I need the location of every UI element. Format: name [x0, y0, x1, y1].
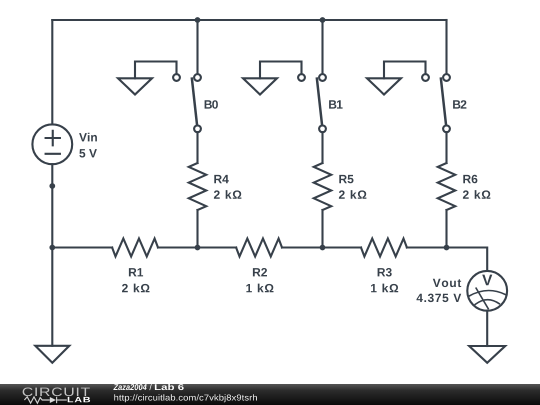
- label R1 value 2 kΩ: [122, 284, 150, 293]
- switch B0: [173, 74, 201, 132]
- label R3: [378, 268, 392, 277]
- label R5 value 2 kΩ: [339, 190, 367, 199]
- ground at switch B0: [118, 78, 152, 94]
- switch B2: [422, 74, 450, 132]
- wire R6 bottom lead: [445, 210, 447, 248]
- label R6 value 2 kΩ: [463, 190, 491, 199]
- label Vin value 5 V: [79, 149, 97, 157]
- label B1: [329, 100, 343, 108]
- label R6: [463, 175, 477, 184]
- wire bottom rail segment 2: [158, 246, 236, 248]
- wire bottom rail segment 3: [282, 246, 361, 248]
- ground at switch B1: [243, 78, 277, 94]
- wire B1 column from top rail: [321, 20, 323, 74]
- wire top rail: [52, 19, 446, 21]
- wire R4 top lead: [196, 132, 198, 163]
- wire R5 top lead: [321, 132, 323, 163]
- voltage source Vin: [32, 124, 72, 164]
- wire B0 column from top rail: [196, 20, 198, 74]
- ground bottom-right: [469, 346, 505, 363]
- footer title Zaza2004 / Lab 6: [113, 384, 183, 390]
- label R5: [339, 175, 353, 183]
- resistor R1: [112, 239, 158, 257]
- switch B1: [298, 74, 326, 132]
- node dot bottom rail at R6: [444, 245, 450, 251]
- resistor R5: [314, 163, 332, 210]
- wire R6 top lead: [445, 132, 447, 163]
- resistor R6: [438, 163, 456, 210]
- label Vin: [79, 133, 97, 142]
- label R4 value 2 kΩ: [214, 190, 242, 199]
- resistor R2: [236, 239, 282, 257]
- wire bottom rail segment 4: [407, 248, 487, 272]
- wire voltmeter to ground: [486, 311, 488, 346]
- label Vout value 4.375 V: [417, 294, 462, 303]
- node dot below Vin: [49, 183, 55, 189]
- wire B0 ground link: [135, 62, 177, 79]
- logo wordmark LAB: [68, 397, 90, 402]
- wire Vin top lead: [51, 20, 53, 124]
- label R2 value 1 kΩ: [246, 284, 273, 293]
- node dot bottom rail at R5: [320, 245, 326, 251]
- wire bottom rail segment 1: [52, 246, 112, 248]
- voltmeter Vout symbol: [467, 271, 507, 311]
- logo resistor-diode squiggle: [24, 397, 66, 403]
- footer url: [114, 394, 257, 402]
- node dot top rail at B0: [195, 17, 201, 23]
- logo wordmark CIRCUIT: [23, 388, 90, 397]
- ground bottom-left: [35, 346, 69, 363]
- wire R4 bottom lead: [196, 210, 198, 248]
- footer bar: [0, 384, 540, 405]
- wire R5 bottom lead: [321, 210, 323, 248]
- label B2: [453, 100, 466, 108]
- node dot bottom-left junction: [49, 245, 55, 251]
- wire B2 ground link: [384, 62, 426, 79]
- label Vout: [433, 279, 461, 287]
- label R4: [214, 175, 229, 183]
- wire B1 ground link: [260, 62, 302, 79]
- resistor R3: [361, 239, 407, 257]
- label B0: [205, 100, 218, 109]
- wire Vin bottom lead: [51, 164, 53, 247]
- label R3 value 1 kΩ: [371, 284, 398, 293]
- wire to bottom-left ground: [51, 248, 53, 346]
- node dot bottom rail at R4: [195, 245, 201, 251]
- wire B2 column from top rail: [445, 20, 447, 74]
- node dot top rail at B1: [320, 17, 326, 23]
- ground at switch B2: [367, 78, 401, 94]
- resistor R4: [189, 163, 207, 210]
- label R2: [253, 268, 267, 276]
- label R1: [129, 268, 143, 276]
